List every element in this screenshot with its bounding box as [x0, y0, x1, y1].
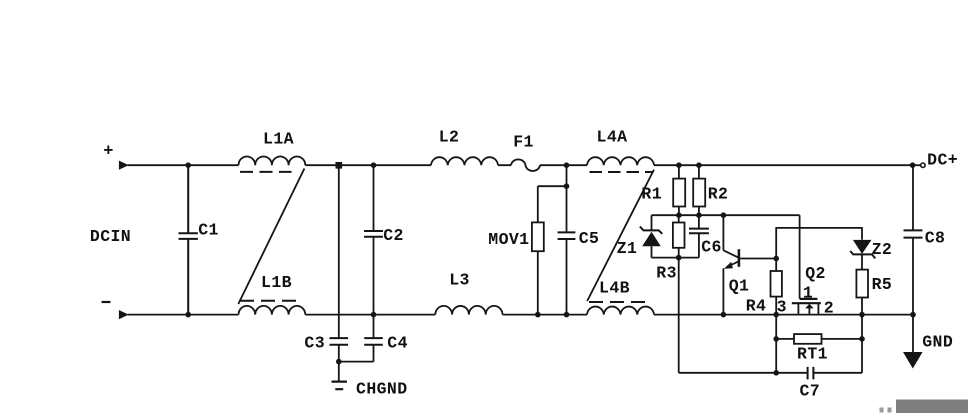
junction MOV1 tee	[564, 183, 570, 189]
junction ground connector	[336, 359, 342, 365]
svg-text:DC+: DC+	[927, 151, 958, 170]
junction C1 top	[185, 162, 191, 168]
svg-text:L1A: L1A	[263, 130, 294, 149]
svg-text:Q2: Q2	[805, 264, 826, 283]
wire R4 node up and over to Z2	[776, 228, 862, 259]
input + terminal arrow	[103, 143, 128, 170]
wire ground connector	[339, 362, 374, 381]
mosfet Q2	[777, 264, 834, 318]
capacitor C6	[689, 215, 722, 257]
junction C2 bottom rail	[371, 312, 377, 318]
junction MOV1 bottom	[535, 312, 541, 318]
junction MOV1 tee top rail	[564, 162, 570, 168]
svg-text:GND: GND	[922, 333, 953, 352]
wire left vertical of RT1/C7 loop	[775, 315, 777, 373]
junction C2 top	[371, 162, 377, 168]
inductor L3	[435, 271, 502, 315]
svg-text:R1: R1	[641, 185, 662, 204]
svg-text:C4: C4	[387, 334, 408, 353]
L4 coupling diagonal	[587, 170, 654, 301]
junction Q1 emitter rail	[721, 312, 727, 318]
output DC+ terminal	[913, 151, 958, 170]
svg-text:+: +	[103, 143, 113, 162]
wire node B down to C7 loop	[678, 258, 680, 373]
inductor L1A	[239, 130, 306, 172]
svg-text:1: 1	[803, 283, 813, 302]
svg-text:R4: R4	[746, 297, 767, 316]
svg-text:L2: L2	[439, 128, 460, 147]
wire right vertical of RT1/C7 loop	[861, 315, 863, 373]
resistor R2	[693, 165, 728, 215]
junction R4 bottom rail	[773, 312, 779, 318]
wire bottom rail	[128, 314, 914, 316]
wire C3 branch vertical	[338, 165, 340, 361]
junction R4 top node	[773, 256, 779, 262]
zener Z1	[617, 215, 663, 258]
svg-text:3: 3	[777, 297, 787, 316]
svg-text:C8: C8	[925, 229, 946, 248]
svg-text:CHGND: CHGND	[356, 380, 408, 399]
capacitor C5	[558, 186, 600, 314]
svg-text:Q1: Q1	[729, 277, 750, 296]
svg-text:DCIN: DCIN	[90, 227, 131, 246]
junction DC+ top rail	[910, 162, 916, 168]
junction C1 bottom	[185, 312, 191, 318]
wire MOV1 tee	[538, 165, 567, 186]
wire top rail	[128, 164, 913, 166]
resistor R1	[641, 165, 685, 215]
resistor R5	[856, 270, 892, 315]
junction RT1 right	[859, 336, 865, 342]
svg-text:C2: C2	[383, 226, 404, 245]
junction R2 top	[696, 162, 702, 168]
svg-text:L1B: L1B	[261, 273, 292, 292]
zener Z2	[850, 240, 892, 270]
junction node B R3	[676, 255, 682, 261]
junction C5 bottom	[564, 312, 570, 318]
L1 coupling diagonal	[238, 169, 304, 305]
junction R2 bottom	[696, 212, 702, 218]
wire node A to Q2 gate	[799, 215, 801, 299]
varistor MOV1	[488, 186, 544, 314]
capacitor C1	[179, 165, 219, 314]
chassis ground CHGND	[332, 380, 408, 399]
node wire B	[652, 257, 699, 259]
capacitor C8	[904, 165, 946, 314]
thermistor RT1	[776, 334, 862, 363]
svg-text:R5: R5	[872, 275, 893, 294]
junction GND rail	[910, 312, 916, 318]
input - terminal arrow	[102, 302, 129, 319]
transistor Q1	[723, 215, 749, 314]
resistor R3	[656, 215, 684, 282]
inductor L2	[431, 128, 498, 166]
svg-text:C6: C6	[701, 238, 722, 257]
watermark small marks	[880, 408, 892, 413]
wire C2/C4 branch vertical	[373, 165, 375, 361]
svg-text:C1: C1	[198, 221, 219, 240]
svg-text:R3: R3	[656, 264, 677, 283]
inductor L4B	[587, 279, 654, 315]
resistor R4	[746, 259, 782, 316]
junction square top of C3 branch	[336, 162, 343, 169]
svg-text:L3: L3	[449, 271, 470, 290]
junction node A Q1 collector	[721, 212, 727, 218]
svg-text:L4A: L4A	[597, 128, 628, 147]
ground GND arrow	[903, 315, 953, 369]
junction RT1 left	[773, 336, 779, 342]
capacitor C7	[679, 367, 862, 401]
capacitor C3	[304, 334, 348, 353]
svg-text:C3: C3	[304, 334, 325, 353]
svg-text:C5: C5	[579, 229, 600, 248]
node wire A	[652, 214, 800, 216]
svg-text:RT1: RT1	[797, 345, 828, 364]
inductor L1B	[239, 273, 306, 315]
svg-text:Z2: Z2	[872, 240, 893, 259]
svg-text:Z1: Z1	[617, 239, 638, 258]
fuse F1	[511, 133, 540, 172]
svg-text:L4B: L4B	[599, 279, 630, 298]
svg-text:2: 2	[824, 299, 834, 318]
junction R1 bottom	[676, 212, 682, 218]
junction C7 left node	[773, 370, 779, 376]
capacitor C2	[364, 226, 404, 245]
svg-text:C7: C7	[799, 382, 820, 401]
svg-text:R2: R2	[708, 185, 729, 204]
inductor L4A	[587, 128, 654, 173]
svg-text:F1: F1	[513, 133, 534, 152]
wire Q1 base to R4 node	[740, 258, 776, 260]
capacitor C4	[364, 334, 408, 353]
watermark gray block	[896, 400, 968, 413]
junction R1 top	[676, 162, 682, 168]
svg-text:MOV1: MOV1	[488, 230, 529, 249]
junction R5 bottom rail	[859, 312, 865, 318]
